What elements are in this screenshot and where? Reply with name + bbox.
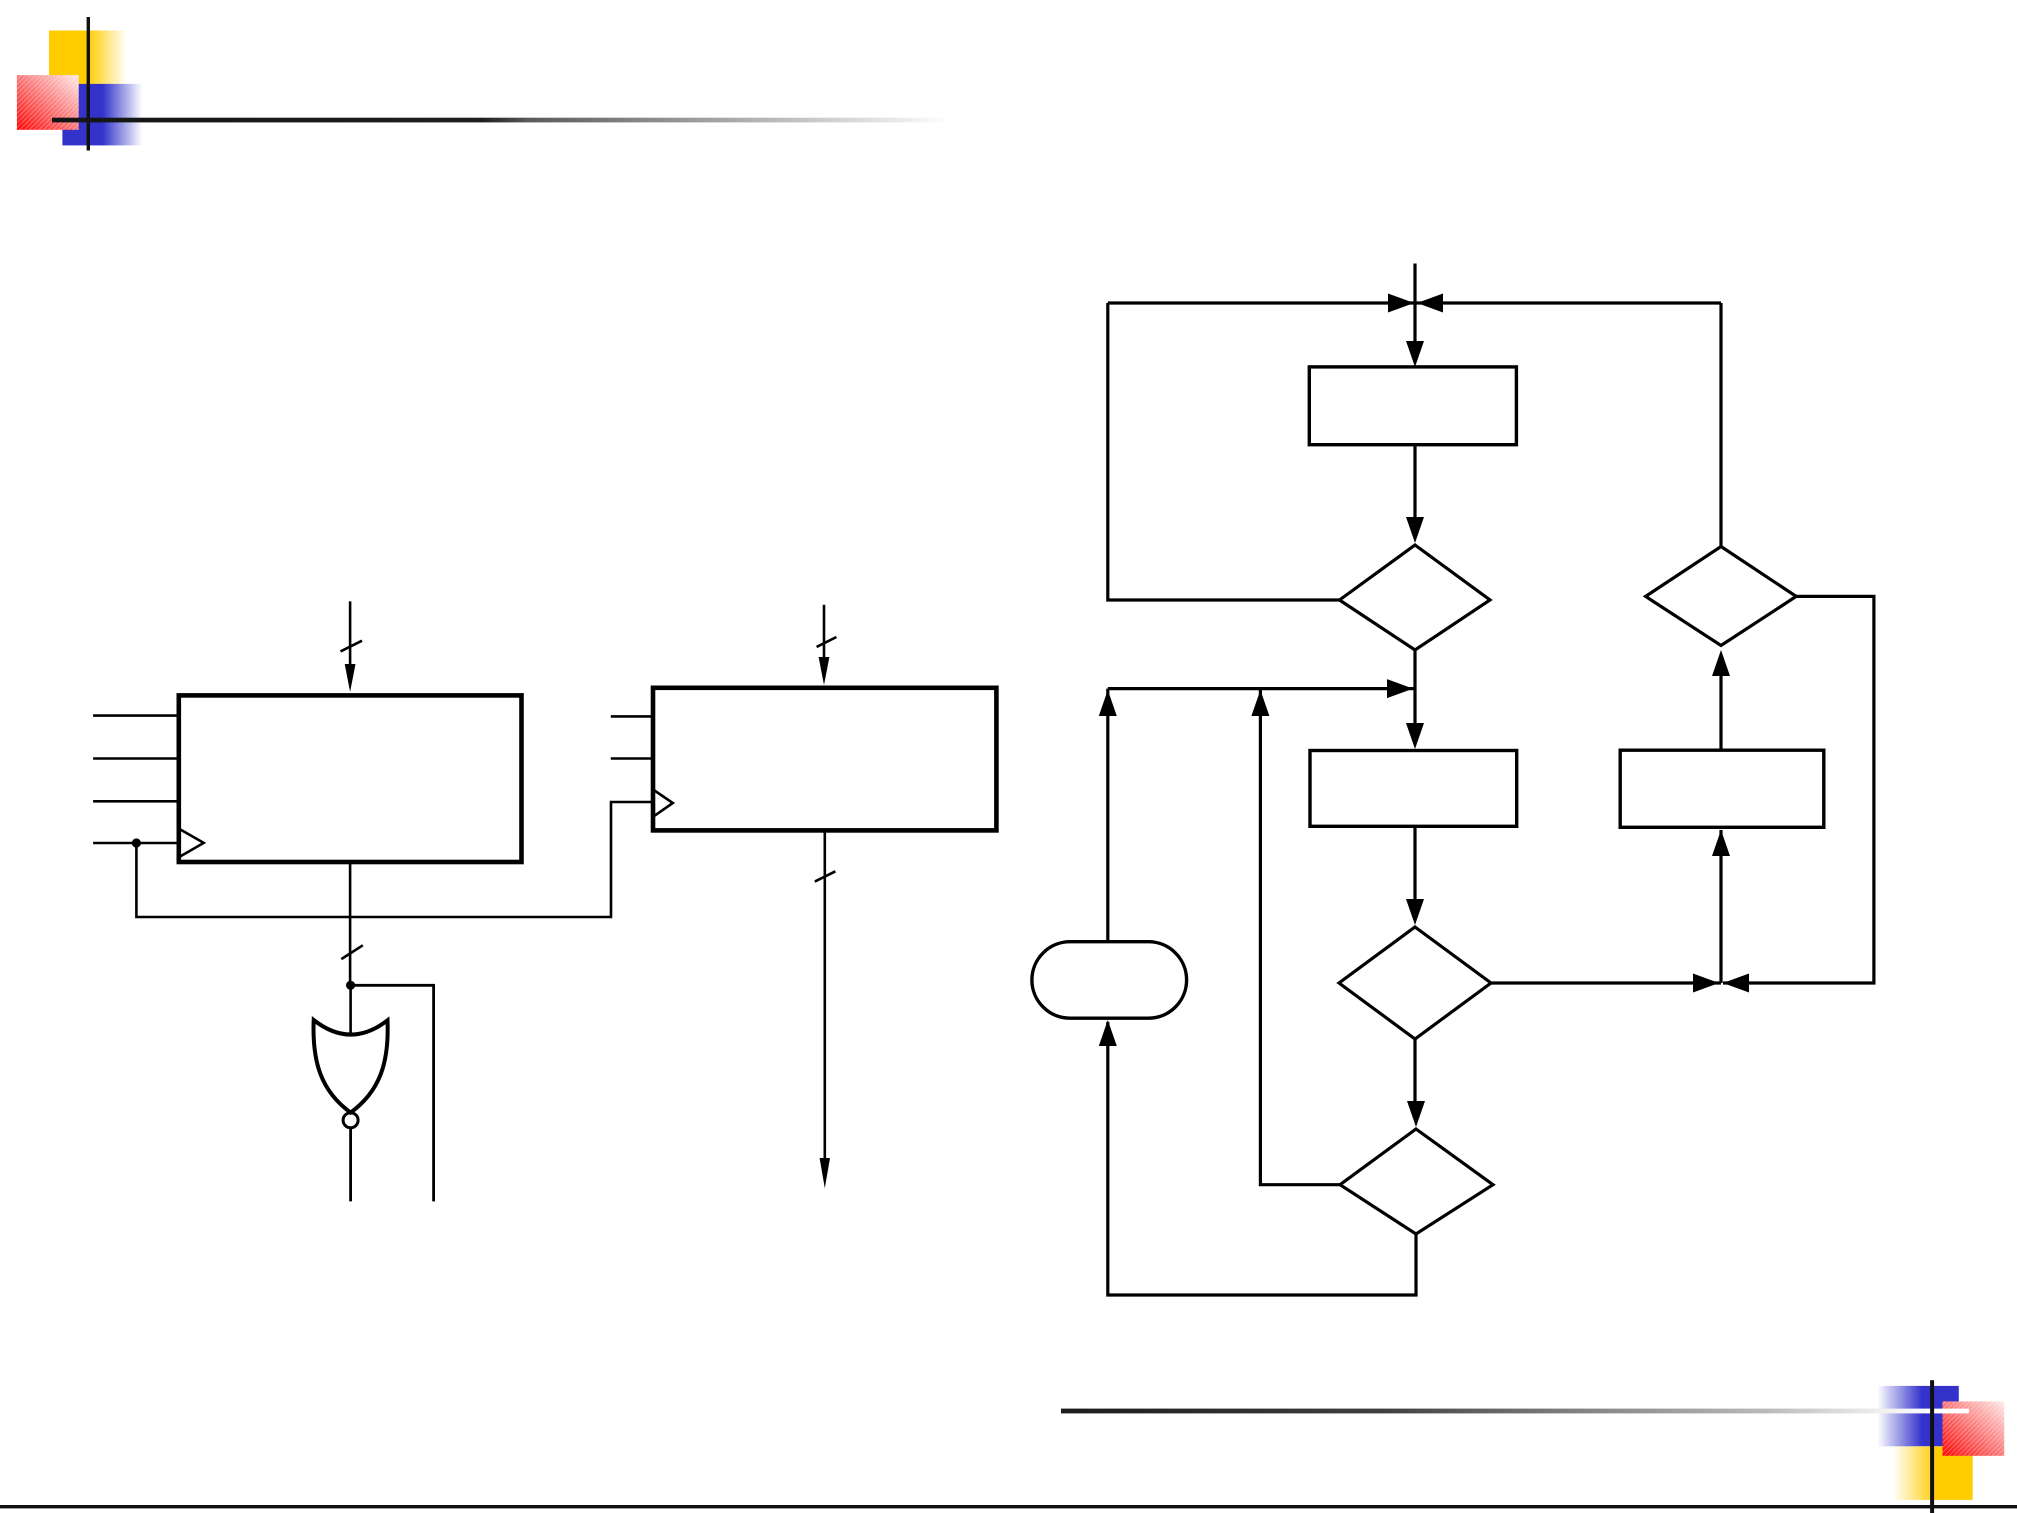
wire D2 bottom to decision D3	[1413, 1039, 1416, 1105]
wire left return loop horizontal	[1108, 301, 1415, 304]
register U1 data-in bus-width slash	[341, 641, 363, 652]
register U2 data-in bus-width slash	[817, 637, 837, 647]
wire D3 left exit up to merge	[1260, 689, 1340, 1185]
top-left blue square	[62, 84, 142, 145]
register U1 data-in bus wire	[349, 601, 352, 667]
wire U1 clock input	[93, 842, 179, 845]
arrowhead into stadium bottom	[1099, 1020, 1117, 1046]
wire top entry stub	[1413, 264, 1416, 304]
arrowhead into P3 bottom	[1712, 830, 1730, 856]
arrowhead into P2	[1406, 723, 1424, 749]
bottom page border line	[0, 1505, 2017, 1508]
arrowhead stadium-loop up into merge line	[1099, 690, 1117, 716]
wire clock feed to U2	[136, 802, 653, 917]
wire branch to right	[351, 985, 434, 1201]
wire U1 input 3	[93, 800, 179, 803]
bottom-right blue square	[1877, 1386, 1959, 1446]
register U1 clock triangle	[179, 829, 204, 858]
decision diamond D4	[1646, 547, 1797, 646]
wire P3 top to decision D4	[1719, 672, 1722, 750]
wire stadium top up to merge	[1106, 689, 1109, 942]
wire J2 up into process P3	[1719, 830, 1722, 983]
register U2 data-in bus arrowhead	[819, 657, 830, 685]
wire D3 bottom loop to stadium	[1108, 1022, 1416, 1295]
wire U2 output bus	[823, 830, 826, 1162]
register U2 clock triangle	[653, 790, 673, 817]
arrowhead left-loop into junction	[1388, 294, 1414, 313]
U2 output bus-width slash	[815, 871, 836, 881]
top-left horizontal gradient line	[52, 118, 950, 123]
wire top junction to process P1	[1413, 303, 1416, 345]
wire U1 input 1	[93, 714, 179, 717]
wire P2 to decision D2	[1413, 826, 1416, 903]
NOR gate G1 inversion bubble	[343, 1113, 358, 1128]
arrowhead into D3	[1407, 1101, 1425, 1127]
arrowhead into D4 bottom	[1712, 650, 1730, 676]
process box P3	[1620, 750, 1824, 827]
decision diamond D3	[1340, 1129, 1493, 1234]
bottom-right horizontal gradient line	[1061, 1409, 1969, 1414]
process box P2	[1310, 751, 1517, 827]
top-left red square	[17, 75, 79, 130]
wire D1 bottom to process P2	[1413, 650, 1416, 727]
arrowhead into P1	[1406, 341, 1424, 367]
node: clock junction dot	[132, 838, 141, 847]
wire D1 left exit to return loop	[1108, 303, 1340, 600]
U2 output arrowhead	[820, 1158, 830, 1188]
wire into NOR gate	[349, 985, 352, 1036]
register U1 data-in bus arrowhead	[345, 664, 356, 692]
process box P1	[1309, 367, 1516, 445]
wire D4 top to right return loop	[1719, 303, 1722, 547]
stadium (terminator)	[1032, 942, 1187, 1019]
arrowhead D2-exit into J2	[1693, 974, 1719, 993]
register U2 data-in bus wire	[823, 605, 826, 660]
bottom-right red square	[1943, 1401, 2005, 1455]
register U2 body	[653, 688, 996, 831]
wire D2 right exit to junction J2	[1491, 981, 1721, 984]
bottom-right vertical black line	[1930, 1380, 1934, 1513]
U1 output bus-width slash	[341, 945, 363, 959]
wire merge horizontal into main line	[1108, 687, 1415, 690]
top-left vertical black line	[87, 17, 90, 151]
arrowhead into D2	[1406, 899, 1424, 925]
wire P1 to decision D1	[1413, 445, 1416, 521]
decision diamond D2	[1339, 927, 1491, 1039]
arrowhead D4-loop into J2	[1723, 974, 1749, 993]
wire U2 input 2	[611, 757, 653, 760]
top-left yellow square	[49, 31, 127, 85]
NOR gate G1 body	[314, 1020, 388, 1113]
arrowhead right-loop into junction	[1417, 294, 1443, 313]
wire U2 input 1	[611, 715, 653, 718]
wire U1 input 2	[93, 757, 179, 760]
arrowhead D3-loop up into merge line	[1251, 690, 1269, 716]
wire U1 output bus	[349, 862, 352, 985]
node: output junction dot	[346, 981, 355, 990]
bottom-right yellow square	[1893, 1446, 1973, 1500]
wire D4 right loop down to J2	[1723, 596, 1874, 983]
decision diamond D1	[1340, 545, 1491, 650]
arrowhead into D1	[1406, 517, 1424, 543]
wire NOR output	[349, 1127, 352, 1201]
wire right return loop horizontal	[1415, 301, 1721, 304]
register U1 body	[179, 695, 522, 862]
arrowhead merge into main line	[1387, 679, 1413, 698]
